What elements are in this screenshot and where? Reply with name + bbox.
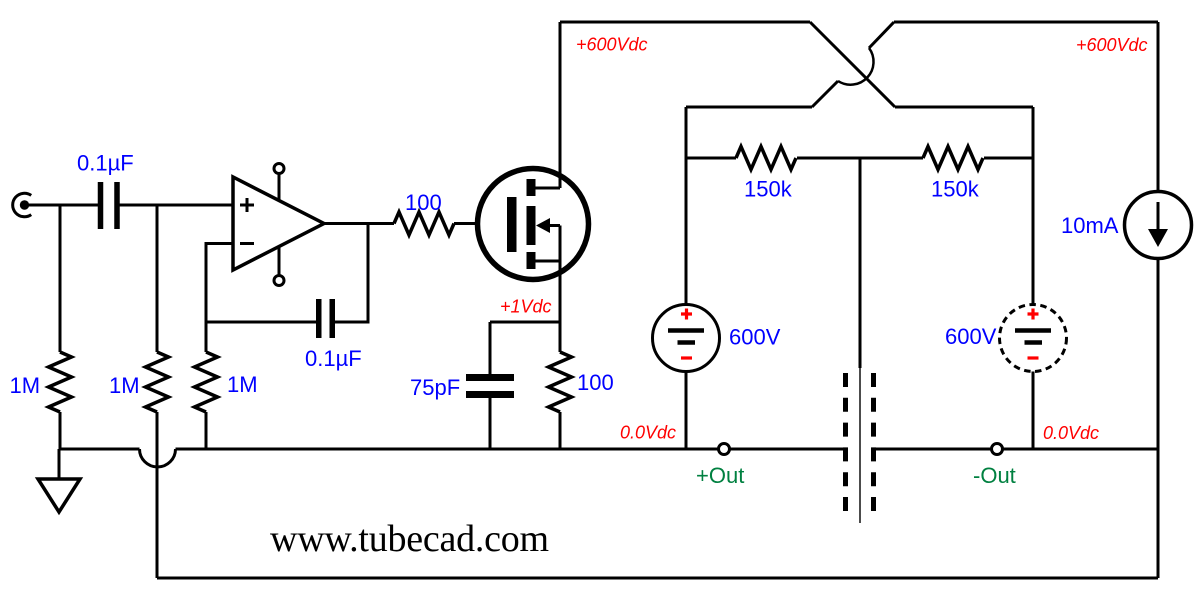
wire top rail left [560,21,810,24]
svg-text:150k: 150k [931,177,980,202]
svg-text:0.1µF: 0.1µF [77,151,134,176]
wire inner top left [686,106,812,109]
wire op-amp output [324,222,394,225]
current source I1 10mA [1125,192,1192,259]
battery B2 600V dashed [1000,305,1067,372]
wire ground bus to ESL left stator [176,448,844,451]
wire source vertical [559,261,562,352]
wire inner right vertical [1032,107,1035,305]
node -Out terminal [992,444,1003,455]
wire center tap vertical [859,158,862,368]
op-amp power pin top [274,164,284,201]
svg-text:1M: 1M [227,372,258,397]
wire right vertical top [1157,22,1160,192]
wire inner left vertical [685,107,688,305]
svg-text:+600Vdc: +600Vdc [1076,35,1148,55]
wire crossing diagonal B lower [812,81,838,107]
svg-text:1M: 1M [109,373,140,398]
svg-text:www.tubecad.com: www.tubecad.com [270,518,549,560]
wire gate [454,222,508,225]
wire R3 bottom lead [205,412,208,449]
wire top rail right [894,21,1158,24]
resistor R5 100 source [549,352,572,412]
resistor R3 1M [195,352,218,412]
wire +1Vdc node horizontal [490,321,560,324]
svg-text:0.1µF: 0.1µF [305,346,362,371]
svg-text:+Out: +Out [696,463,744,488]
node +Out terminal [719,444,730,455]
wire resistor row middle [797,157,923,160]
wire resistor row right [984,157,1033,160]
svg-text:600V: 600V [945,324,997,349]
ESL stator left [843,373,848,511]
resistor R7 150k [923,147,983,170]
wire ground bus right segment [876,448,1158,451]
svg-text:150k: 150k [744,177,793,202]
wire R2 bottom lead down to bottom bus [156,412,159,578]
battery B1 600V [653,305,720,372]
wire drain vertical to top rail [559,22,562,188]
resistor R2 1M [146,352,169,412]
op-amp power pin bottom [274,247,284,286]
wire battery B1 bottom lead [685,372,688,450]
wire battery B2 bottom lead [1032,372,1035,450]
wire crossing hop arc [838,48,874,85]
wire feedback horizontal [206,321,316,324]
wire R2 top lead [156,205,159,352]
svg-text:0.0Vdc: 0.0Vdc [620,423,676,443]
resistor R4 100 gate [394,212,454,235]
wire ground stub [58,449,61,479]
wire inner top right [895,106,1033,109]
wire hop over R2 branch [140,449,176,467]
svg-text:75pF: 75pF [410,375,460,400]
wire 75pF bottom lead [489,398,492,449]
svg-text:100: 100 [405,190,442,215]
capacitor C2 0.1uF feedback plates [319,299,333,338]
wire 75pF top lead [489,322,492,374]
wire R3 top lead [205,322,208,352]
wire resistor row left [686,157,736,160]
wire crossing diagonal B upper [869,22,894,48]
wire crossing diagonal A [810,22,895,107]
svg-text:10mA: 10mA [1061,213,1119,238]
svg-text:0.0Vdc: 0.0Vdc [1043,423,1099,443]
svg-text:+1Vdc: +1Vdc [500,297,552,317]
wire inverting input stub [206,244,233,323]
wire right vertical bottom [1157,259,1160,579]
ESL stator right [871,373,876,511]
wire feedback cap to output [335,224,368,323]
op-amp U1 [233,177,324,270]
resistor R6 150k [736,147,796,170]
wire R5 bottom lead [559,412,562,449]
wire input right to op-amp [120,204,234,207]
wire input left [29,204,98,207]
resistor R1 1M [49,352,72,412]
transistor Q1 MOSFET [478,169,589,280]
wire R1 bottom lead [59,412,62,449]
input jack J1 [13,193,32,217]
ESL diaphragm [859,368,861,523]
svg-text:-Out: -Out [973,463,1016,488]
wire ground bus left [59,448,140,451]
svg-text:100: 100 [577,370,614,395]
svg-text:+600Vdc: +600Vdc [576,35,648,55]
capacitor C1 0.1uF input plates [101,182,118,229]
wire R1 top lead [59,205,62,352]
svg-text:1M: 1M [10,373,41,398]
svg-text:600V: 600V [729,325,781,350]
ground [38,479,80,512]
capacitor C3 75pF plates [466,378,514,395]
wire bottom bus [157,577,1158,580]
